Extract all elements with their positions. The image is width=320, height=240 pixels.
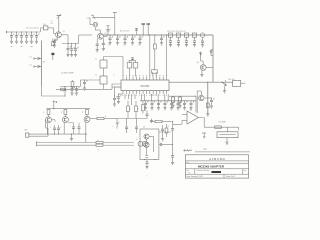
svg-text:C: C <box>50 127 52 129</box>
junction tick <box>53 101 55 109</box>
capacitor C11 <box>70 86 75 95</box>
wire mid link <box>90 118 97 120</box>
label Q2 <box>105 33 107 35</box>
capacitor C31 <box>208 98 215 109</box>
capacitor C49 <box>102 38 105 50</box>
svg-text:1: 1 <box>146 176 148 178</box>
svg-text:J2: J2 <box>136 139 138 141</box>
capacitor C15 <box>108 35 113 45</box>
wire main bus <box>103 34 213 36</box>
capacitor C1 <box>10 32 15 47</box>
capacitor C3 <box>20 32 25 47</box>
capacitor C10 <box>74 43 79 57</box>
label q5 <box>195 96 197 98</box>
label R10 <box>130 109 132 111</box>
wire emitter bus <box>29 134 87 141</box>
svg-text:Q2: Q2 <box>105 33 107 35</box>
capacitor C30 <box>200 33 204 47</box>
label L1 <box>51 20 53 25</box>
capacitor C7 <box>53 40 58 48</box>
ground squelch <box>206 108 209 117</box>
wire amp bottom <box>54 134 59 135</box>
filter FL1 <box>43 26 48 30</box>
capacitor C20 <box>160 35 165 45</box>
svg-text:R2: R2 <box>43 62 45 64</box>
svg-text:R: R <box>168 126 170 128</box>
svg-text:D1: D1 <box>30 56 32 58</box>
label pa <box>143 127 145 129</box>
wire pa top <box>159 131 171 133</box>
wire input bus <box>9 28 44 32</box>
capacitor C43 <box>125 119 128 134</box>
op-amp U2 <box>187 111 199 124</box>
IC U1 MC3363 <box>121 80 169 91</box>
label fl1 <box>44 24 47 26</box>
wire Q1 collector <box>61 35 68 44</box>
svg-text:C: C <box>169 40 170 42</box>
resistor R3 <box>71 80 74 89</box>
svg-text:C: C <box>108 45 109 47</box>
capacitor C41 <box>189 100 194 110</box>
svg-text:R5 C15 C16: R5 C15 C16 <box>120 31 129 33</box>
svg-text:U3: U3 <box>143 127 145 129</box>
pot RV1 <box>202 133 206 138</box>
label R11 <box>138 109 140 111</box>
capacitor C36 <box>157 100 162 110</box>
label bus left <box>120 31 129 33</box>
svg-text:Size: Size <box>186 170 189 172</box>
ground r18 <box>161 135 164 141</box>
label bus right <box>167 31 185 33</box>
capacitor C9 <box>70 43 75 57</box>
wire pins down <box>125 94 168 105</box>
resistor R8 <box>171 96 174 108</box>
wire if out <box>169 81 233 83</box>
transistor Q8 <box>84 116 90 122</box>
connector J2 mic <box>26 120 49 138</box>
label Q1 <box>63 31 65 33</box>
capacitor C27 <box>176 33 180 47</box>
wire vco vertical <box>41 41 43 87</box>
capacitor C8 <box>66 43 71 57</box>
wire FL1 to Q1 <box>48 28 56 34</box>
svg-text:VOLUME: VOLUME <box>219 122 227 124</box>
label Q8 <box>82 112 84 114</box>
svg-text:L1: L1 <box>51 20 53 22</box>
resistor R4 <box>61 88 66 90</box>
title size <box>186 170 190 175</box>
resistor R1 <box>52 39 56 46</box>
label ic left <box>114 75 116 77</box>
svg-text:T1: T1 <box>95 59 97 61</box>
svg-text:Q: Q <box>43 112 45 114</box>
capacitor C16 <box>116 35 121 45</box>
supply V1 <box>141 24 145 35</box>
wire xtal link <box>130 58 136 61</box>
label mixer <box>61 72 75 75</box>
diode D6 <box>112 119 118 129</box>
wire audio node <box>117 118 147 120</box>
capacitor C54 <box>78 123 81 134</box>
resistor R9 <box>178 96 181 108</box>
transistor Q3 <box>200 65 206 71</box>
svg-text:MC3363 ADAPTER: MC3363 ADAPTER <box>198 165 225 169</box>
annotation arrow <box>184 149 208 152</box>
label Q3 <box>197 62 199 64</box>
wire audio out lines <box>37 141 97 146</box>
label d6 <box>119 122 121 124</box>
label C45 <box>50 127 63 129</box>
wire Q5 wiring <box>197 91 208 113</box>
capacitor C48 <box>227 127 229 132</box>
wire vco loop <box>42 86 66 96</box>
svg-text:C14: C14 <box>87 18 90 20</box>
resistor R10 <box>127 101 130 119</box>
label input filter <box>26 27 39 29</box>
capacitor C45 <box>53 125 56 134</box>
svg-text:C B: C B <box>204 149 208 151</box>
resistor R11 <box>135 101 138 119</box>
sheet border <box>195 151 250 153</box>
label elec row <box>169 40 202 42</box>
wire osc link <box>60 86 81 97</box>
svg-text:Title: Title <box>186 161 189 164</box>
svg-text:MIC: MIC <box>25 129 29 131</box>
transistor Q4 <box>221 80 226 93</box>
capacitor C25 <box>135 28 138 35</box>
resistor R13 <box>64 109 67 117</box>
diode D2 <box>34 65 42 68</box>
crystal Y1 <box>90 18 98 27</box>
capacitor C55 <box>159 143 173 146</box>
capacitor C52 <box>107 26 113 35</box>
capacitor C40 <box>183 100 188 110</box>
label c47 <box>168 126 170 128</box>
title block frame <box>185 155 248 178</box>
wire mid rail <box>169 95 196 97</box>
transformer T1 <box>100 57 107 69</box>
capacitor C4 <box>25 32 30 44</box>
label mic <box>25 129 29 131</box>
resistor R6 <box>206 103 209 108</box>
svg-text:C32 C33: C32 C33 <box>150 94 157 96</box>
label bits <box>189 148 206 150</box>
capacitor C26 <box>168 33 172 47</box>
svg-text:Sheet 1 of 1: Sheet 1 of 1 <box>226 175 235 178</box>
resistor R17 <box>97 117 117 119</box>
wire bus to pin <box>149 34 150 76</box>
wire below ic rail <box>140 100 196 102</box>
svg-text:MC3363: MC3363 <box>141 86 150 88</box>
resistor R15 <box>96 141 134 143</box>
label Q6 <box>43 112 45 114</box>
svg-text:Q3: Q3 <box>197 62 199 64</box>
title sheet <box>226 175 235 178</box>
svg-text:C1 C2 C3 C4 C5: C1 C2 C3 C4 C5 <box>26 27 39 29</box>
wire to ic left <box>112 84 121 89</box>
wire if rail <box>56 88 112 90</box>
title rev <box>244 170 247 172</box>
wire amp rail <box>47 108 91 110</box>
supply V2 <box>143 24 150 36</box>
svg-text:10.7MHz IF AMP: 10.7MHz IF AMP <box>61 72 75 75</box>
svg-text:D2: D2 <box>30 64 32 66</box>
capacitor C6 <box>35 32 40 44</box>
svg-text:C: C <box>61 127 63 129</box>
wire q6 q7 coupling <box>52 120 56 122</box>
transistor Q6 <box>46 117 52 123</box>
resistor R7 <box>141 101 144 114</box>
antenna E1 <box>57 14 62 32</box>
label D1 D2 <box>30 56 46 66</box>
transistor Q9 <box>144 134 149 139</box>
junction <box>56 101 58 103</box>
crystal Y3 <box>133 60 138 76</box>
svg-text:R: R <box>130 109 132 111</box>
svg-text:T2: T2 <box>95 75 97 77</box>
svg-text:Q: Q <box>82 112 84 114</box>
wire ic left down <box>113 87 121 106</box>
label mid <box>105 116 107 118</box>
page mark <box>146 176 148 178</box>
wire right drop <box>212 35 214 82</box>
svg-text:C: C <box>110 29 112 31</box>
svg-text:Y1 Y2: Y1 Y2 <box>128 60 132 62</box>
capacitor C53 <box>68 123 75 134</box>
wire Q3 wiring <box>200 61 213 77</box>
wire squelch drop <box>207 82 208 114</box>
title date <box>186 175 203 178</box>
resistor R21 <box>153 34 156 67</box>
wire branch opamp <box>173 121 182 125</box>
capacitor C13 <box>83 80 88 91</box>
resistor R12 <box>47 109 50 117</box>
transistor Q2 <box>98 33 104 39</box>
capacitor C44 <box>135 119 138 134</box>
svg-text:FL1: FL1 <box>44 24 47 26</box>
title label <box>186 161 189 164</box>
label r15 <box>98 140 100 152</box>
svg-text:C: C <box>114 75 116 77</box>
wire T2 bottom <box>103 84 105 89</box>
title doc <box>197 169 221 173</box>
svg-text:Rev: Rev <box>244 170 247 172</box>
capacitor C12 <box>75 86 80 95</box>
svg-text:C: C <box>185 40 186 42</box>
capacitor C46 <box>57 125 60 134</box>
wire xtal to Q2 <box>95 27 100 33</box>
transistor Q7 <box>62 117 68 123</box>
connector J1 ANT <box>7 31 9 33</box>
label T2 <box>95 75 97 77</box>
label below ic <box>150 94 157 96</box>
label squelch <box>219 122 227 124</box>
wire t1 to ic <box>104 57 124 77</box>
svg-text:Date: January 8, 1997: Date: January 8, 1997 <box>186 175 203 178</box>
wire pa wiring <box>145 137 153 158</box>
amplifier box A1 <box>140 129 159 160</box>
resistor R20 <box>215 126 222 129</box>
diode D5 <box>200 52 202 62</box>
wire Q2 emitter <box>96 39 99 52</box>
svg-text:C: C <box>201 40 202 42</box>
diode D4 <box>210 50 213 56</box>
wire Q1 emitter bypass <box>56 37 58 40</box>
capacitor C17 <box>123 35 128 45</box>
capacitor C39 <box>176 100 181 110</box>
svg-text:R: R <box>138 109 140 111</box>
transformer T2 <box>100 68 107 84</box>
label r8r9 <box>174 99 183 101</box>
wire Q2 collector <box>103 35 107 36</box>
wire to opamp <box>195 96 197 112</box>
label opamp <box>190 110 192 112</box>
label T1 <box>95 59 97 61</box>
wire rf out <box>79 35 93 44</box>
ground speaker <box>225 138 228 145</box>
diode D3 <box>64 87 67 97</box>
wire pin up right <box>166 34 167 76</box>
label bus drops <box>108 45 154 47</box>
svg-text:C6: C6 <box>51 23 53 25</box>
svg-text:D: D <box>119 122 121 124</box>
transistor Q1 <box>56 32 62 38</box>
speaker LS1 <box>217 132 238 138</box>
capacitor C5 <box>30 32 35 47</box>
title name <box>198 165 225 169</box>
svg-text:R: R <box>105 116 107 118</box>
svg-text:Document Number: Document Number <box>197 169 210 172</box>
crystal Y4 <box>152 68 158 77</box>
crystal Y2 <box>127 60 132 76</box>
node blob <box>51 53 54 60</box>
capacitor C51 <box>146 111 149 119</box>
label xtal <box>128 60 132 62</box>
trimmer C14 <box>87 15 97 19</box>
capacitor C50 <box>171 121 174 165</box>
connector J3 <box>138 141 147 146</box>
wire emitters <box>47 122 86 142</box>
U1 pin numbers <box>123 76 168 96</box>
svg-text:C: C <box>153 45 154 47</box>
wire to mixer <box>81 80 101 87</box>
wire opamp out <box>199 118 205 128</box>
svg-text:C21 C22 C23 C24 C25: C21 C22 C23 C24 C25 <box>167 31 185 33</box>
capacitor C38 <box>170 100 175 110</box>
resistor R19 <box>150 120 172 122</box>
svg-text:C: C <box>138 45 139 47</box>
label ceramic filter <box>228 79 235 81</box>
resistor R18 <box>165 124 168 137</box>
wire trimmer <box>97 13 117 35</box>
label j3 <box>136 139 138 141</box>
resistor R14 <box>86 109 89 117</box>
capacitor C2 <box>15 32 20 44</box>
capacitor C19 <box>138 35 143 45</box>
title company <box>209 157 224 161</box>
label Q7 <box>61 112 63 114</box>
capacitor C47 <box>161 125 164 135</box>
ground audio <box>150 119 153 123</box>
capacitor C35 <box>150 100 155 110</box>
capacitor C37 <box>163 100 168 110</box>
capacitor C18 <box>131 35 136 45</box>
transistor Q5 <box>199 95 204 100</box>
wire decoupling rail <box>62 43 79 45</box>
svg-text:A L B U R D: A L B U R D <box>209 157 224 161</box>
capacitor C42 <box>117 94 123 104</box>
ground pa <box>145 160 148 169</box>
svg-text:U2: U2 <box>190 110 192 112</box>
transistor Q10 <box>144 142 149 147</box>
wire opamp inputs <box>182 115 187 121</box>
svg-text:+: + <box>112 126 114 128</box>
capacitor C28 <box>184 33 188 47</box>
filter FL2 <box>233 80 246 86</box>
resistor R16 <box>96 144 134 146</box>
diode D1 <box>34 57 42 60</box>
svg-text:R: R <box>98 150 100 152</box>
svg-text:C: C <box>123 45 124 47</box>
svg-text:+ C: + C <box>189 148 192 150</box>
U1 bottom pins <box>123 91 167 95</box>
capacitor C34 <box>144 100 149 110</box>
svg-text:Q: Q <box>61 112 63 114</box>
U1 top pins <box>123 77 167 80</box>
wire speaker feed <box>204 127 238 130</box>
capacitor C29 <box>192 33 196 47</box>
svg-text:Q1: Q1 <box>63 31 65 33</box>
